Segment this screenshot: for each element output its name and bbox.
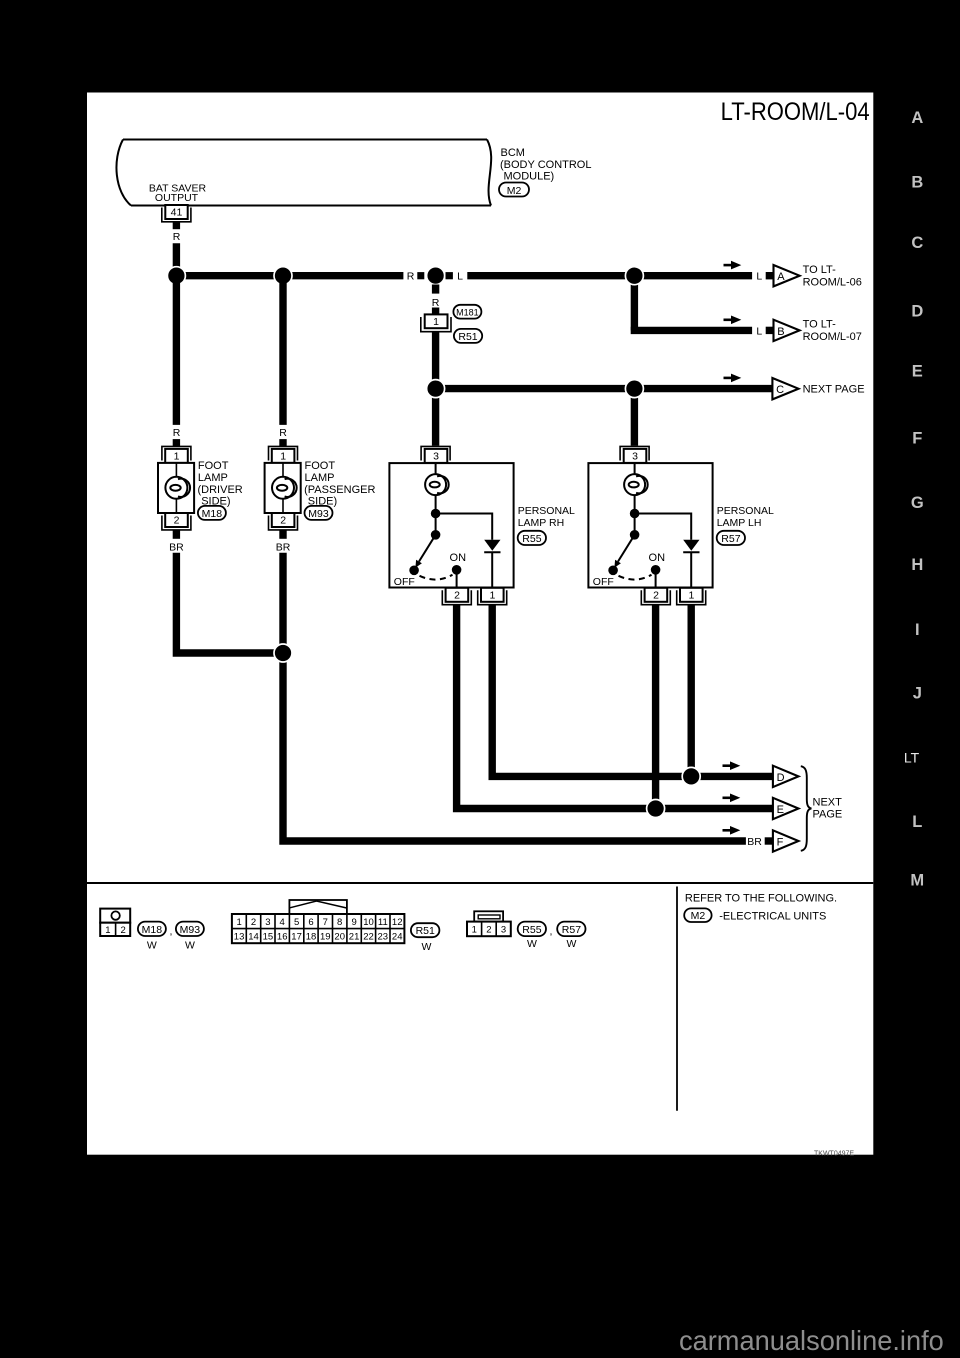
svg-text:2: 2 <box>280 515 286 527</box>
legend connector R51 24-pin grid <box>232 914 405 943</box>
svg-text:C: C <box>776 384 784 396</box>
wire stub above foot lamp passenger <box>279 439 286 446</box>
svg-text:L: L <box>912 813 922 831</box>
svg-text:ON: ON <box>649 552 666 564</box>
svg-text:1: 1 <box>174 451 180 463</box>
svg-text:13: 13 <box>234 932 245 943</box>
flow arrow above C <box>724 377 733 380</box>
svg-text:BR: BR <box>747 836 762 848</box>
splice square <box>417 272 424 279</box>
switch arm LH <box>618 535 635 562</box>
svg-text:1: 1 <box>280 451 286 463</box>
svg-text:5: 5 <box>294 917 299 928</box>
svg-text:8: 8 <box>337 917 342 928</box>
svg-text:3: 3 <box>632 451 638 463</box>
foot lamp passenger pin 2 bracket <box>269 516 298 530</box>
personal lamp RH pin 3 box <box>425 449 448 463</box>
svg-text:ROOM/L-06: ROOM/L-06 <box>803 276 862 288</box>
OFF contact dot LH <box>608 566 618 576</box>
svg-text:W: W <box>527 938 537 950</box>
svg-text:15: 15 <box>263 932 274 943</box>
svg-text:FOOT: FOOT <box>198 460 229 472</box>
connector oval R57 <box>717 531 745 545</box>
svg-text:B: B <box>911 174 923 192</box>
svg-text:carmanualsonline.info: carmanualsonline.info <box>679 1325 944 1356</box>
switch arm RH <box>419 535 436 562</box>
svg-text:R57: R57 <box>721 533 740 545</box>
svg-text:L: L <box>756 325 762 337</box>
svg-text:R: R <box>173 427 181 439</box>
svg-text:A: A <box>911 109 923 127</box>
svg-text:NEXT PAGE: NEXT PAGE <box>803 384 865 396</box>
svg-text:3: 3 <box>433 451 439 463</box>
svg-text:24: 24 <box>392 932 403 943</box>
svg-text:22: 22 <box>363 932 374 943</box>
svg-text:2: 2 <box>120 925 125 936</box>
svg-text:R57: R57 <box>562 924 581 936</box>
foot lamp driver pin 2 box <box>165 513 188 527</box>
svg-text:(DRIVER: (DRIVER <box>198 484 243 496</box>
foot lamp driver side M18 pin 1 bracket <box>162 446 191 460</box>
svg-text:1: 1 <box>433 316 439 328</box>
junction dot bus1 right <box>625 267 643 285</box>
svg-text:19: 19 <box>320 932 331 943</box>
splice square at A <box>766 272 773 279</box>
personal lamp RH pin 1 bracket <box>478 590 507 604</box>
wire foot lamp driver to junction <box>176 553 283 653</box>
off-page connector A <box>774 265 800 286</box>
personal lamp LH pin 2 bracket <box>641 590 670 604</box>
svg-text:TKWT0497E: TKWT0497E <box>814 1151 854 1158</box>
node dot branch RH <box>431 509 441 519</box>
wire stub below foot lamp driver <box>173 530 180 539</box>
svg-text:R51: R51 <box>458 331 477 343</box>
svg-text:B: B <box>777 326 784 338</box>
brace for D E F <box>801 766 812 851</box>
svg-text:14: 14 <box>248 932 259 943</box>
svg-text:A: A <box>777 271 785 283</box>
svg-text:ROOM/L-07: ROOM/L-07 <box>803 331 862 343</box>
wire bus1 to foot lamp driver <box>173 276 180 425</box>
svg-text:M93: M93 <box>180 924 201 936</box>
personal lamp LH body R57 <box>588 463 712 587</box>
junction dot bus1 at splice <box>427 267 445 285</box>
svg-text:2: 2 <box>251 917 256 928</box>
OFF contact dot RH <box>409 566 419 576</box>
wire bus2 to personal lamp RH <box>432 389 439 446</box>
wire stub below splice dot <box>432 285 439 294</box>
svg-text:OFF: OFF <box>593 576 614 588</box>
svg-text:LAMP: LAMP <box>198 472 228 484</box>
svg-text:1: 1 <box>236 917 241 928</box>
foot lamp passenger side M93 pin 1 bracket <box>269 446 298 460</box>
node dot pivot RH <box>431 530 441 540</box>
junction dot bus2 right <box>625 380 643 398</box>
wire foot lamp passenger down to F <box>283 553 746 841</box>
svg-text:(PASSENGER: (PASSENGER <box>304 484 375 496</box>
svg-text:OFF: OFF <box>394 576 415 588</box>
svg-text:R55: R55 <box>522 924 541 936</box>
wire RH pin1 to D <box>492 605 773 777</box>
legend oval M93 <box>176 922 204 936</box>
wire RH pin2 to E <box>457 605 773 809</box>
svg-text:16: 16 <box>277 932 288 943</box>
wire stub above foot lamp driver <box>173 439 180 446</box>
svg-text:W: W <box>566 938 576 950</box>
personal lamp RH pin 1 box <box>481 588 504 602</box>
connector oval M181 <box>453 305 481 319</box>
personal lamp LH pin 3 bracket <box>620 446 649 460</box>
flow arrow above A <box>724 264 733 267</box>
svg-text:LAMP RH: LAMP RH <box>518 517 565 529</box>
svg-text:,: , <box>170 926 173 938</box>
svg-text:M2: M2 <box>691 910 706 922</box>
off-page connector E <box>773 798 799 819</box>
legend connector R55/R57 3-pin grid <box>467 922 511 937</box>
legend connector M18/M93 icon <box>100 909 130 923</box>
svg-text:M18: M18 <box>142 924 163 936</box>
svg-text:W: W <box>422 941 432 953</box>
svg-text:R51: R51 <box>416 925 435 937</box>
svg-text:OUTPUT: OUTPUT <box>155 192 199 204</box>
wire ON dot to pin 2 RH <box>456 570 458 587</box>
svg-text:41: 41 <box>171 207 183 219</box>
connector M181/R51 bracket <box>421 317 451 332</box>
svg-text:6: 6 <box>308 917 313 928</box>
svg-text:12: 12 <box>392 917 403 928</box>
foot lamp passenger bulb <box>272 477 294 499</box>
svg-text:3: 3 <box>265 917 270 928</box>
wire to B connector <box>631 327 752 334</box>
splice square <box>446 272 453 279</box>
svg-text:2: 2 <box>653 590 659 602</box>
BCM (BODY CONTROL MODULE) box <box>116 140 491 206</box>
personal lamp LH pin 3 box <box>624 449 647 463</box>
personal lamp RH bulb <box>425 474 446 495</box>
svg-text:R: R <box>432 297 440 309</box>
diode LH <box>683 540 699 551</box>
svg-text:FOOT: FOOT <box>305 460 336 472</box>
svg-text:E: E <box>912 363 923 381</box>
wire bus2 to personal lamp LH <box>631 389 638 446</box>
svg-text:LAMP: LAMP <box>305 472 335 484</box>
pin 41 box <box>165 205 187 219</box>
svg-text:PERSONAL: PERSONAL <box>717 505 774 517</box>
pin 41 bracket <box>162 208 191 222</box>
bus wire segment left <box>176 272 403 279</box>
svg-text:LT: LT <box>904 750 920 766</box>
personal lamp RH pin 2 bracket <box>442 590 471 604</box>
legend oval R57 <box>557 922 585 937</box>
svg-text:PAGE: PAGE <box>813 808 843 820</box>
foot lamp passenger pin 2 box <box>272 513 295 527</box>
junction dot bus1 second <box>274 267 292 285</box>
foot lamp driver pin 1 box <box>165 449 188 463</box>
legend oval M2 <box>684 908 711 922</box>
svg-text:M: M <box>910 872 924 890</box>
off-page connector F <box>773 830 799 851</box>
personal lamp LH pin 2 box <box>645 588 668 602</box>
personal lamp RH branch to diode <box>436 514 493 540</box>
junction dot bus2 left <box>427 380 445 398</box>
svg-text:2: 2 <box>174 515 180 527</box>
svg-text:R55: R55 <box>522 533 541 545</box>
junction dot BR <box>274 644 292 662</box>
svg-text:2: 2 <box>486 925 491 936</box>
svg-text:9: 9 <box>351 917 356 928</box>
svg-text:18: 18 <box>306 932 317 943</box>
off-page connector B <box>774 320 800 341</box>
svg-text:E: E <box>777 804 784 816</box>
flow arrow above E <box>723 796 732 799</box>
diode RH <box>484 540 500 551</box>
personal lamp LH pin 1 box <box>680 588 703 602</box>
personal lamp LH internal line <box>634 463 636 534</box>
personal lamp LH branch to diode <box>635 514 692 540</box>
svg-text:BCM: BCM <box>501 147 525 159</box>
BCM connector oval M2 <box>499 183 529 197</box>
node dot branch LH <box>630 509 640 519</box>
personal lamp RH pin 2 box <box>446 588 469 602</box>
svg-text:MODULE): MODULE) <box>504 171 555 183</box>
svg-text:PERSONAL: PERSONAL <box>518 505 575 517</box>
wire ON dot to pin 2 LH <box>655 570 657 587</box>
personal lamp LH bulb <box>624 474 645 495</box>
splice square at F <box>765 837 772 844</box>
wire stub above connector R51 <box>432 308 439 315</box>
svg-text:J: J <box>913 685 922 703</box>
svg-text:W: W <box>147 940 157 952</box>
wire drop to B branch <box>631 276 638 331</box>
svg-text:LT-ROOM/L-04: LT-ROOM/L-04 <box>721 98 870 126</box>
foot lamp driver bulb <box>165 477 187 499</box>
svg-text:7: 7 <box>323 917 328 928</box>
legend connector R55/R57 tab <box>474 911 503 921</box>
legend connector R51 hood <box>289 900 347 914</box>
svg-text:BR: BR <box>169 541 184 553</box>
svg-text:LAMP LH: LAMP LH <box>717 517 762 529</box>
legend oval R55 <box>518 922 546 937</box>
wire stub below foot lamp passenger <box>279 530 286 539</box>
personal lamp RH internal line <box>435 463 437 534</box>
svg-text:F: F <box>912 430 922 448</box>
legend oval R51 <box>411 923 440 937</box>
svg-text:H: H <box>911 556 923 574</box>
connector M181/R51 pin 1 box <box>425 314 448 328</box>
legend oval M18 <box>138 922 166 936</box>
off-page connector C <box>772 378 798 399</box>
wire stub below pin 41 <box>173 222 180 229</box>
wire LH pin1 to D junction <box>688 605 695 777</box>
svg-text:D: D <box>911 303 923 321</box>
foot lamp driver body <box>158 463 194 513</box>
svg-text:NEXT: NEXT <box>813 796 843 808</box>
svg-text:23: 23 <box>378 932 389 943</box>
svg-text:M2: M2 <box>507 185 522 197</box>
junction dot D <box>682 767 700 785</box>
flow arrow above D <box>723 764 732 767</box>
wire LH pin2 to E junction <box>652 605 659 809</box>
svg-text:2: 2 <box>454 590 460 602</box>
personal lamp RH body R55 <box>389 463 513 587</box>
svg-text:M181: M181 <box>456 308 479 318</box>
bus2 wire <box>436 385 773 392</box>
connector oval R51 <box>454 329 482 343</box>
junction dot E <box>647 800 665 818</box>
node dot pivot LH <box>630 530 640 540</box>
svg-text:1: 1 <box>688 590 694 602</box>
svg-text:,: , <box>550 926 553 938</box>
splice square at B <box>766 327 773 334</box>
ON contact dot LH <box>651 565 661 575</box>
dashed throw arc RH <box>420 575 453 580</box>
svg-text:3: 3 <box>501 925 506 936</box>
svg-text:17: 17 <box>291 932 302 943</box>
dashed throw arc LH <box>619 575 652 580</box>
svg-text:ON: ON <box>450 552 467 564</box>
flow arrow above F <box>723 829 732 832</box>
svg-text:D: D <box>777 772 785 784</box>
foot lamp passenger body <box>265 463 301 513</box>
svg-text:1: 1 <box>105 925 110 936</box>
svg-text:10: 10 <box>363 917 374 928</box>
legend column divider <box>676 887 678 1111</box>
wire bus1 to foot lamp passenger <box>279 276 286 425</box>
svg-text:REFER TO THE FOLLOWING.: REFER TO THE FOLLOWING. <box>685 893 837 905</box>
connector oval M18 <box>198 506 226 520</box>
svg-text:21: 21 <box>349 932 360 943</box>
foot lamp driver pin 2 bracket <box>162 516 191 530</box>
svg-text:(BODY CONTROL: (BODY CONTROL <box>500 159 591 171</box>
foot lamp passenger pin 1 box <box>272 449 295 463</box>
svg-text:1: 1 <box>472 925 477 936</box>
ON contact dot RH <box>452 565 462 575</box>
bus wire segment right <box>467 272 752 279</box>
legend separator line <box>87 882 873 884</box>
personal lamp RH pin 3 bracket <box>421 446 450 460</box>
svg-text:1: 1 <box>489 590 495 602</box>
svg-text:M18: M18 <box>202 508 223 520</box>
white diagram sheet <box>87 93 873 1155</box>
svg-text:L: L <box>756 271 762 283</box>
svg-text:20: 20 <box>334 932 345 943</box>
svg-text:BR: BR <box>276 541 291 553</box>
svg-text:11: 11 <box>378 917 388 928</box>
flow arrow above B <box>724 318 733 321</box>
wire from pin 41 to bus <box>173 243 180 275</box>
off-page connector D <box>773 766 799 787</box>
svg-text:I: I <box>915 621 920 639</box>
junction dot bus1 left <box>167 267 185 285</box>
personal lamp LH pin 1 bracket <box>677 590 706 604</box>
svg-text:R: R <box>279 427 287 439</box>
svg-text:TO LT-: TO LT- <box>803 319 837 331</box>
connector oval M93 <box>305 506 333 520</box>
wire from R51 to bus2 <box>432 332 439 389</box>
connector oval R55 <box>518 531 546 545</box>
svg-text:G: G <box>911 494 924 512</box>
svg-text:W: W <box>185 940 195 952</box>
svg-text:R: R <box>173 231 181 243</box>
svg-text:TO LT-: TO LT- <box>803 264 837 276</box>
svg-text:R: R <box>407 271 415 283</box>
svg-text:L: L <box>457 271 463 283</box>
svg-text:C: C <box>911 234 923 252</box>
svg-text:4: 4 <box>280 917 285 928</box>
svg-text:M93: M93 <box>308 508 329 520</box>
svg-text:F: F <box>777 836 784 848</box>
svg-text:-ELECTRICAL UNITS: -ELECTRICAL UNITS <box>719 910 826 922</box>
